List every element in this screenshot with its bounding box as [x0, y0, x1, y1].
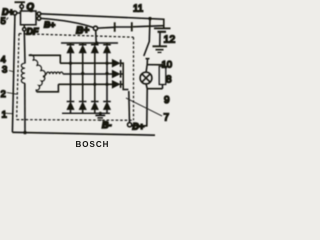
exciter diode 1 [112, 59, 120, 67]
svg-text:8: 8 [166, 75, 172, 86]
ground battery [153, 45, 168, 47]
diode pair column 1 [70, 43, 72, 45]
wire bottom B- line [12, 132, 155, 135]
node junction top wire [148, 17, 151, 20]
diode pair column 2 [82, 43, 84, 45]
terminal DF [23, 28, 26, 31]
wire B+ drop to rail [95, 30, 98, 43]
svg-text:BOSCH: BOSCH [76, 140, 110, 148]
capacitor plate [131, 22, 133, 31]
wire top B+ to battery [41, 14, 164, 29]
svg-text:11: 11 [133, 4, 143, 15]
diode pair column 4 [106, 43, 108, 45]
phase rail 2 [63, 73, 112, 75]
svg-text:B-: B- [102, 120, 112, 130]
switch 10 [144, 19, 150, 56]
resistor 8 [147, 65, 162, 67]
node rail3 col4 [105, 83, 108, 86]
svg-text:7: 7 [164, 113, 170, 124]
svg-text:B+: B+ [44, 20, 55, 30]
leader 1 [6, 112, 14, 115]
svg-text:DF: DF [27, 27, 39, 37]
wire D+ down left side [12, 15, 15, 132]
leader 3 [9, 71, 15, 73]
svg-text:12: 12 [164, 33, 176, 45]
terminal B+ upper [37, 12, 41, 16]
wire [36, 14, 37, 19]
rotor field winding [23, 31, 26, 64]
bridge B+ rail [61, 42, 118, 44]
bridge bottom rail [62, 112, 110, 114]
wire [17, 12, 21, 14]
alternator dashed housing box [17, 34, 134, 121]
svg-text:D+: D+ [132, 121, 144, 131]
phase rail 3 [58, 83, 112, 85]
stator phase 3 wire [37, 84, 59, 92]
svg-text:1: 1 [2, 109, 7, 120]
wire [21, 8, 23, 11]
wire [23, 25, 25, 28]
node rail3 col3 [93, 83, 96, 86]
wire exciter cathode rail [121, 63, 129, 89]
svg-text:3: 3 [2, 65, 7, 76]
ground bar Q [15, 1, 26, 3]
wire D+ riser [128, 91, 131, 123]
lamp 9 [146, 65, 147, 73]
svg-text:2: 2 [1, 89, 6, 100]
node rail2 col2 [81, 72, 84, 75]
node rail1 col1 [69, 62, 72, 65]
stator winding 3 (coil) [44, 72, 63, 76]
svg-text:Q: Q [27, 2, 35, 13]
leader [7, 93, 17, 95]
terminal B+ alternator [93, 26, 97, 30]
node field to B- line [23, 131, 26, 134]
node rail2 col4 [105, 72, 108, 75]
circuit schematic: Bosch alternator with regulator [0, 0, 180, 148]
wire rejoin [146, 84, 162, 89]
wire [21, 2, 23, 5]
phase rail 1 [60, 62, 112, 64]
terminal Q [20, 5, 24, 9]
svg-text:B+: B+ [76, 26, 89, 37]
terminal D+ alternator [128, 123, 132, 127]
terminal B+ lower [37, 17, 41, 21]
exciter diode 3 [112, 81, 120, 89]
node star center [43, 75, 45, 77]
node rail1 col4 [105, 62, 108, 65]
ground B- [99, 113, 101, 115]
regulator U (box) [21, 11, 37, 25]
stator winding 1 (zigzag) [29, 55, 46, 77]
capacitor plate [114, 22, 116, 32]
battery 12 [154, 27, 171, 29]
node [99, 112, 102, 115]
stator phase 1 wire [29, 55, 61, 63]
stator winding 2 (zigzag) [36, 77, 45, 92]
diode pair column 3 [94, 43, 96, 45]
svg-text:5: 5 [1, 16, 6, 27]
terminal D+ [13, 11, 17, 15]
node [95, 42, 98, 45]
leader [6, 18, 8, 20]
exciter diode 2 [112, 70, 120, 78]
wire lower B+ [41, 18, 94, 27]
wire lamp return to D+ [132, 89, 148, 126]
leader 7 [126, 98, 162, 116]
wire B+ capacitor line [98, 26, 164, 28]
svg-text:9: 9 [164, 95, 170, 106]
